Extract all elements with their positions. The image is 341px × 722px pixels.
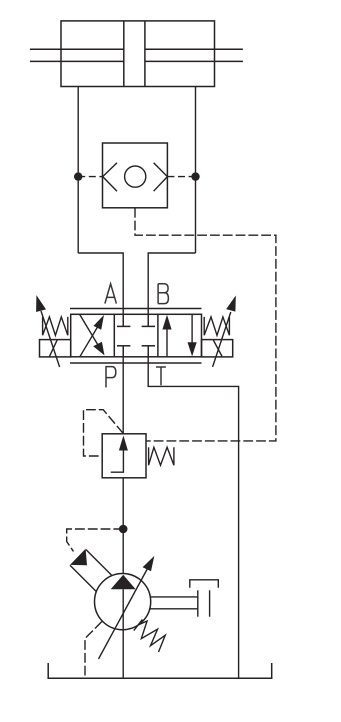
wire valve P to relief valve	[122, 346, 124, 434]
relief valve V2 flow arrow	[119, 436, 128, 451]
wire valve T to tank	[148, 346, 238, 679]
pump P1 compensator piston	[197, 590, 199, 616]
relief valve V2 spring	[149, 447, 174, 465]
solenoid S2 proportional arrow shaft	[213, 312, 231, 367]
relief valve V2 pilot loop (dashed)	[84, 410, 124, 456]
pump P1 variable displacement arrow	[99, 569, 148, 660]
wire node L to valve port A	[78, 253, 123, 326]
wire pump outlet down to tank	[122, 630, 124, 679]
relief valve V2 body	[102, 434, 146, 478]
wire node R to valve port B	[148, 253, 195, 326]
solenoid S1 slash	[49, 340, 57, 357]
valve U1 outer proportional envelope bottom	[70, 362, 202, 364]
cylinder C1 rod left	[30, 48, 124, 50]
label port P	[106, 367, 116, 388]
pump P1 shaft arrow head	[70, 549, 87, 565]
wire relief valve to pump node	[122, 478, 124, 574]
pump P1 control spring	[133, 618, 169, 652]
pump P1 circle	[95, 574, 151, 630]
pump P1 outlet triangle	[111, 575, 136, 590]
check valve V1 body	[103, 143, 168, 208]
solenoid S2 proportional arrow head	[226, 296, 236, 312]
pump P1 drive shaft	[70, 565, 96, 591]
valve U1 center position blocked port A	[122, 314, 124, 326]
valve U1 center position blocked port P	[122, 346, 124, 357]
check valve V1 left seat	[103, 163, 117, 192]
node A1 junction dot left	[74, 172, 82, 180]
valve U1 right position arrow up	[166, 328, 168, 357]
solenoid S2 right box	[202, 340, 233, 357]
node B1 junction dot right	[191, 172, 199, 180]
cylinder C1 body	[61, 21, 215, 87]
solenoid S1 proportional arrow shaft	[41, 311, 60, 367]
label port A	[105, 284, 117, 304]
pilot line node J1 to pump control (dashed)	[67, 529, 124, 552]
label port B	[158, 284, 168, 304]
pump P1 internal line	[122, 589, 124, 629]
pilot line left dot to check valve	[78, 176, 103, 178]
tank T1 line	[48, 663, 272, 678]
cylinder C1 piston	[123, 21, 125, 87]
node J1 junction dot	[119, 525, 128, 534]
label port T	[156, 367, 166, 385]
pilot drain line from check valve (dashed)	[135, 208, 276, 441]
cylinder C1 rod right	[145, 48, 243, 50]
valve U1 right position arrow down	[191, 314, 193, 343]
solenoid S2 slash	[213, 340, 222, 357]
check valve V1 ball	[125, 166, 146, 187]
solenoid S1 left box	[40, 340, 71, 357]
valve U1 center position blocked port B	[147, 314, 149, 326]
check valve V1 right seat	[154, 163, 168, 192]
valve U1 left position crossed arrow 2	[80, 315, 101, 349]
valve U1 center position blocked port T	[147, 346, 149, 357]
wire cylinder cap-end to node L	[77, 87, 79, 254]
pump P1 compensator cylinder bracket	[190, 580, 219, 588]
spring left of valve	[43, 317, 68, 335]
valve U1 outer proportional envelope top	[70, 308, 202, 310]
pump case drain (dashed)	[85, 622, 102, 679]
valve U1 position boxes	[71, 314, 202, 357]
wire cylinder rod-end to node R	[195, 87, 197, 254]
solenoid S1 proportional arrow head	[36, 295, 46, 312]
valve U1 left position crossed arrow 1	[80, 323, 100, 357]
pump P1 compensator rod	[150, 596, 198, 598]
pilot line right dot to check valve	[167, 176, 195, 178]
spring right of valve	[204, 317, 229, 335]
